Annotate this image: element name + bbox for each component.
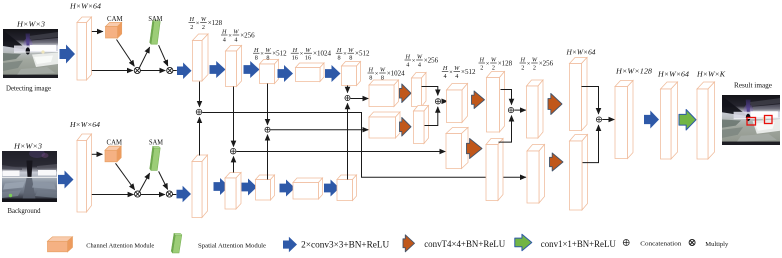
feature slab conv1 top (H x W x 64) [77, 17, 92, 80]
svg-text:×512: ×512 [272, 50, 287, 58]
wire lower H/4 slab to concat E [425, 107, 438, 126]
wire E5 top down to concat D [347, 86, 349, 93]
wire E5 bottom up to concat D [347, 103, 349, 179]
legend CAM icon [48, 237, 73, 252]
svg-text:W: W [417, 54, 423, 61]
svg-text:×: × [343, 51, 347, 58]
skip wire concat C to lower H/8 box [271, 129, 369, 131]
svg-text:8: 8 [266, 55, 269, 62]
skip wire concat A to lower H/2 slab [202, 113, 526, 178]
SAM slab top branch [150, 20, 161, 44]
svg-text:H: H [292, 47, 298, 54]
svg-text:convT4×4+BN+ReLU: convT4×4+BN+ReLU [424, 239, 505, 249]
svg-text:CAM: CAM [107, 140, 123, 147]
svg-text:×: × [228, 32, 232, 39]
svg-text:×256: ×256 [240, 31, 255, 39]
svg-text:W: W [233, 29, 239, 36]
blue arrow E1-E2 bottom [214, 178, 230, 195]
svg-text:W: W [380, 67, 386, 74]
svg-text:×1024: ×1024 [387, 69, 405, 77]
svg-text:W: W [532, 57, 538, 64]
decoder cube E5 bottom [337, 175, 357, 201]
label H/2 x W/2 x 128 (decoder) [479, 57, 513, 72]
svg-text:H: H [253, 47, 259, 54]
svg-text:4: 4 [406, 61, 409, 68]
convT arrow lower H/2 [550, 153, 564, 171]
svg-text:SAM: SAM [148, 16, 162, 23]
upper slab H/2 x W/2 x 128 [487, 72, 505, 133]
svg-text:H×W×64: H×W×64 [69, 3, 102, 11]
svg-text:H×W×64: H×W×64 [565, 49, 595, 57]
svg-text:8: 8 [338, 55, 341, 62]
svg-text:2×conv3×3+BN+ReLU: 2×conv3×3+BN+ReLU [301, 240, 390, 250]
svg-text:W: W [305, 47, 311, 54]
wire multiply1 to multiply2 (bottom) [141, 194, 165, 196]
svg-text:H×W×3: H×W×3 [13, 143, 43, 151]
svg-text:×128: ×128 [208, 19, 223, 27]
svg-text:Channel Attention Module: Channel Attention Module [86, 242, 154, 249]
concat node D (decoder start) [345, 95, 350, 100]
label H/4 x W/4 x 512 (decoder) [442, 65, 476, 80]
svg-text:×1024: ×1024 [313, 50, 331, 58]
svg-text:H×W×64: H×W×64 [69, 121, 100, 129]
CAM cube top branch [106, 22, 122, 38]
svg-text:4: 4 [444, 73, 447, 80]
wire lower HW slab to concat G [583, 125, 599, 163]
wire CAM to multiply1 (bottom) [116, 163, 135, 189]
slab H x W x 128 [615, 81, 633, 159]
wire slab to CAM (bottom) [92, 153, 103, 155]
legend multiply symbol [689, 240, 695, 246]
wire slab to multiply1 (top) [92, 70, 133, 72]
svg-text:16: 16 [292, 55, 298, 62]
feature slab conv1 bottom (H x W x 64) [77, 134, 92, 212]
svg-text:×: × [196, 20, 200, 27]
blue arrow E1-E2 top [210, 61, 226, 78]
wire slab to multiply1 (bottom) [92, 194, 134, 196]
svg-text:H: H [479, 57, 485, 64]
wire E1 bottom up to concat A [199, 117, 201, 155]
svg-text:×: × [412, 57, 416, 64]
encoder box E4 bottom [293, 178, 323, 199]
label H/2 x W/2 x 128 (encoder top) [189, 16, 223, 31]
CAM cube bottom branch [105, 146, 121, 162]
input photo: detecting image [3, 29, 58, 78]
multiply node 2 bottom [166, 191, 172, 197]
svg-text:8: 8 [255, 55, 258, 62]
svg-text:H: H [442, 65, 448, 72]
encoder slab E1 top (H/2 x W/2 x 128) [193, 34, 209, 81]
wire upper HW slab to concat G [582, 87, 599, 114]
lower box H/8 x W/8 x 1024 (skip) [369, 112, 400, 138]
svg-text:2: 2 [521, 64, 524, 71]
svg-text:Multiply: Multiply [705, 241, 729, 248]
convT arrow upper H/8 [400, 84, 412, 103]
big blue arrow from background image [58, 171, 74, 189]
svg-text:H: H [368, 67, 374, 74]
svg-text:H: H [405, 54, 411, 61]
svg-text:2: 2 [533, 64, 536, 71]
slab H x W x K [697, 82, 715, 159]
label H/2 x W/2 x 256 (decoder) [520, 57, 554, 72]
label H/8 x W/8 x 512 (decoder start top) [336, 47, 370, 62]
svg-text:×: × [300, 51, 304, 58]
wire concat E to upper H/4 box [442, 100, 448, 102]
wire CAM to multiply1 (top) [117, 40, 135, 67]
svg-text:H×W×3: H×W×3 [16, 21, 46, 29]
svg-text:×: × [260, 51, 264, 58]
legend SAM icon [171, 233, 182, 253]
svg-text:H: H [336, 47, 342, 54]
wire E3 bottom up to concat C [267, 135, 269, 180]
svg-text:×: × [375, 70, 379, 77]
wire multiply2 to encoder (top) [173, 70, 177, 72]
svg-text:W: W [454, 65, 460, 72]
SAM slab bottom branch [150, 146, 161, 170]
svg-text:Detecting image: Detecting image [6, 84, 52, 93]
slab H x W x 64 (final) [661, 82, 678, 159]
label H/8 x W/8 x 512 (encoder top) [253, 47, 287, 62]
blue arrow into encoder bottom [177, 186, 192, 203]
convT arrow lower H/8 [400, 118, 412, 137]
upper box H/8 x W/8 x 1024 [369, 80, 399, 107]
lower slab H/2 x W/2 x 128 [486, 139, 503, 201]
svg-text:H: H [520, 57, 526, 64]
svg-text:Concatenation: Concatenation [640, 240, 682, 247]
svg-text:4: 4 [418, 61, 421, 68]
blue arrow E4-E5 top [325, 65, 341, 82]
wire concat D to upper H/8 box [351, 98, 369, 100]
svg-text:SAM: SAM [149, 140, 163, 147]
svg-text:×256: ×256 [539, 59, 554, 67]
svg-text:×: × [449, 69, 453, 76]
svg-text:×512: ×512 [355, 50, 370, 58]
upper slab H x W x 64 [570, 58, 588, 131]
encoder box E4 top (H/16 x W/16 x 1024) [296, 63, 325, 82]
svg-text:CAM: CAM [107, 16, 123, 23]
wire multiply1 to SAM (bottom) [140, 173, 150, 191]
lower slab H/2 x W/2 x 256 (skip) [527, 145, 545, 204]
concat node B (H/4 skip) [230, 148, 236, 154]
blue arrow E3-E4 bottom [280, 180, 296, 197]
upper box H/4 x W/4 x 512 [447, 84, 468, 123]
multiply node 1 bottom [135, 191, 141, 197]
wire multiply1 to SAM (top) [139, 47, 149, 68]
wire multiply1 to multiply2 (top) [140, 70, 165, 72]
green arrow conv1x1 [679, 110, 696, 131]
wire upper H/4 slab to concat E [422, 87, 438, 96]
svg-text:Result image: Result image [734, 81, 773, 90]
wire E2 bottom up to concat B [233, 157, 235, 173]
wire concat F to upper H/2 slab 256 [514, 109, 526, 111]
upper slab H/4 x W/4 x 256 [412, 73, 427, 107]
big blue arrow from detecting image [60, 45, 76, 64]
legend convT arrow icon [403, 235, 415, 252]
svg-text:H: H [221, 29, 227, 36]
svg-text:8: 8 [381, 74, 384, 81]
svg-text:H: H [189, 16, 195, 23]
blue arrow E3-E4 top [278, 65, 294, 82]
convT arrow upper H/2 [548, 94, 562, 115]
svg-text:×128: ×128 [498, 59, 513, 67]
input photo: background image [2, 149, 57, 202]
encoder slab E2 bottom [225, 173, 241, 210]
label H/16 x W/16 x 1024 (encoder top) [291, 47, 332, 62]
wire slab to CAM (top) [92, 31, 103, 33]
lower box H/4 x W/4 x 512 (skip) [446, 128, 468, 169]
svg-text:W: W [348, 47, 354, 54]
wire SAM to multiply2 (bottom) [159, 171, 168, 189]
blue arrow E2-E3 top [244, 61, 260, 78]
blue arrow into encoder top [177, 63, 192, 80]
svg-text:16: 16 [305, 55, 311, 62]
svg-text:2: 2 [492, 64, 495, 71]
upper slab H/2 x W/2 x 256 [527, 80, 544, 138]
wire SAM to multiply2 (top) [159, 45, 168, 66]
svg-text:W: W [265, 47, 271, 54]
blue arrow E4-E5 bottom [324, 180, 340, 197]
svg-text:H×W×128: H×W×128 [615, 68, 653, 76]
label H/4 x W/4 x 256 (decoder) [405, 54, 439, 69]
svg-text:W: W [201, 16, 207, 23]
wire concat G to H x W x 128 slab [602, 119, 614, 121]
svg-text:×512: ×512 [461, 68, 476, 76]
svg-text:H×W×K: H×W×K [696, 71, 726, 79]
svg-text:×: × [527, 60, 531, 67]
svg-text:W: W [491, 57, 497, 64]
svg-text:4: 4 [234, 36, 237, 43]
svg-text:2: 2 [480, 64, 483, 71]
concat node C (H/8 skip) [265, 127, 270, 132]
concat node G (HW merge) [596, 117, 601, 122]
wire lower H/2 slab to concat F [499, 116, 512, 143]
convT arrow lower H/4 [467, 139, 483, 159]
svg-text:2: 2 [202, 24, 205, 31]
blue arrow conv final [644, 111, 659, 129]
blue arrow E2-E3 bottom [242, 179, 258, 196]
encoder cube E3 top (H/8 x W/8 x 512) [260, 60, 279, 84]
svg-text:Background: Background [8, 206, 41, 215]
multiply node 1 top [134, 67, 140, 73]
svg-text:×256: ×256 [424, 56, 439, 64]
svg-text:8: 8 [349, 55, 352, 62]
label H/4 x W/4 x 256 (encoder top) [221, 29, 255, 44]
svg-text:4: 4 [223, 36, 226, 43]
wire multiply2 to encoder (bottom) [173, 194, 177, 196]
concat node E (H/4 merge) [435, 99, 440, 104]
svg-text:H×W×64: H×W×64 [657, 71, 690, 79]
label H/8 x W/8 x 1024 (decoder) [368, 67, 406, 82]
concat node F (H/2 merge) [508, 107, 513, 112]
lower slab H x W x 64 [570, 135, 588, 211]
svg-text:Spatial Attention Module: Spatial Attention Module [198, 242, 266, 249]
multiply node 2 top [167, 67, 173, 73]
decoder cube E5 top (H/8 x W/8 x 512) [342, 62, 361, 86]
legend green arrow icon [515, 234, 532, 251]
svg-text:2: 2 [190, 24, 193, 31]
result photo [722, 95, 780, 145]
encoder slab E1 bottom [192, 155, 208, 218]
wire E1 top down to concat A [199, 82, 201, 107]
wire E3 top down to concat C [267, 84, 269, 125]
encoder slab E2 top (H/4 x W/4 x 256) [226, 46, 242, 87]
svg-text:4: 4 [455, 73, 458, 80]
lower slab H/4 x W/4 x 256 [414, 106, 429, 144]
legend concat symbol [623, 240, 629, 246]
wire upper H/2 slab to concat F [501, 90, 512, 105]
svg-text:×: × [486, 60, 490, 67]
svg-text:conv1×1+BN+ReLU: conv1×1+BN+ReLU [541, 239, 616, 249]
skip wire concat B to lower H/4 box [236, 151, 445, 153]
encoder cube E3 bottom [256, 175, 275, 200]
wire E2 top down to concat B [233, 87, 235, 147]
concat node A (H/2 skip) [196, 109, 202, 115]
legend blue arrow icon [283, 237, 297, 253]
convT arrow upper H/4 [472, 91, 485, 109]
svg-text:8: 8 [369, 74, 372, 81]
